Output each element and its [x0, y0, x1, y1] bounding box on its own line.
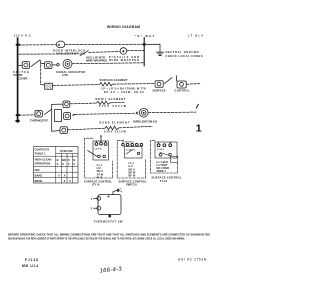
svg-text:4: 4 — [120, 189, 122, 193]
svg-text:240V 2841W: 240V 2841W — [99, 104, 127, 108]
svg-text:S: S — [68, 158, 70, 162]
svg-text:CHECK LOCAL CODES: CHECK LOCAL CODES — [166, 54, 203, 58]
svg-text:BF W: BF W — [129, 174, 136, 178]
svg-text:CONTROL: CONTROL — [175, 88, 190, 92]
svg-text:WIRE WRAPPED: WIRE WRAPPED — [86, 58, 107, 62]
svg-text:LP + LR 3-4 BA 1764W, W 778: LP + LR 3-4 BA 1764W, W 778 — [102, 86, 147, 90]
wire rail3 right — [72, 62, 144, 65]
svg-text:EP AU + 292W, 98.6V: EP AU + 292W, 98.6V — [104, 90, 144, 94]
junction plus — [136, 112, 138, 114]
wire bake — [68, 128, 104, 130]
svg-text:OVEN SW: OVEN SW — [60, 149, 73, 153]
switch box K2 — [45, 62, 52, 69]
svg-text:COVER: COVER — [18, 77, 28, 81]
svg-text:115 V A.C.: 115 V A.C. — [14, 33, 32, 37]
svg-text:AT W: AT W — [97, 172, 104, 176]
svg-text:X: X — [69, 179, 71, 183]
group3 side box — [170, 156, 177, 162]
svg-text:BF W: BF W — [97, 177, 104, 179]
wire rail2 mid — [89, 51, 120, 54]
svg-text:CONTACTS: CONTACTS — [35, 148, 50, 152]
terminal small circle — [57, 63, 59, 65]
svg-text:THERMOSTAT: THERMOSTAT — [30, 118, 48, 122]
terminal 4 lead — [113, 190, 117, 194]
resistor R1 surface element — [100, 82, 113, 86]
junction dot TB/rail1 — [143, 43, 146, 46]
switch S1 — [80, 51, 88, 56]
svg-text:LT BLU: LT BLU — [188, 33, 203, 37]
switch S3 — [165, 78, 173, 84]
ground GND — [157, 52, 164, 55]
svg-text:SIGNAL INDICATOR: SIGNAL INDICATOR — [56, 70, 85, 74]
wire rail4 elbow — [41, 84, 45, 86]
svg-text:BAKE ELEMENT: BAKE ELEMENT — [100, 121, 130, 125]
wire rail1 left — [19, 44, 56, 46]
wire rail1 right — [65, 43, 144, 45]
svg-text:SURFACE ELEMENT: SURFACE ELEMENT — [100, 78, 128, 82]
svg-text:L1 H S: L1 H S — [157, 149, 164, 151]
wire bake elbow — [52, 130, 60, 133]
svg-text:BR: BR — [62, 158, 66, 162]
svg-text:X: X — [58, 173, 60, 177]
lamp DS1 door interlock — [56, 41, 65, 48]
svg-text:1: 1 — [91, 197, 93, 201]
wire rail1 to ground — [144, 44, 160, 52]
switch box K3 — [155, 81, 163, 88]
wire broil — [70, 102, 96, 105]
svg-text:X: X — [73, 162, 75, 166]
group2 loop — [117, 141, 145, 178]
svg-text:B: B — [57, 158, 59, 162]
svg-text:WIRE 4: WIRE 4 — [157, 169, 167, 173]
terminal 3 — [109, 215, 111, 217]
svg-text:COVER: COVER — [13, 73, 23, 77]
terminal 1 — [97, 197, 101, 201]
svg-text:(TY 4): (TY 4) — [92, 183, 100, 187]
switch S4 — [45, 109, 52, 114]
resistor R3 bake — [105, 126, 119, 130]
svg-text:TABLE 1: TABLE 1 — [35, 152, 46, 156]
svg-text:X: X — [64, 179, 66, 183]
group1 switch arm — [88, 150, 98, 156]
svg-text:DIAGRAM ABOVE. FOR REPLACEMENT: DIAGRAM ABOVE. FOR REPLACEMENT OF PARTS … — [8, 237, 185, 241]
wire elbow right — [176, 76, 178, 81]
svg-text:240V 3215W: 240V 3215W — [104, 130, 127, 134]
wire broil branch vertical — [51, 104, 53, 131]
svg-text:OFF: OFF — [35, 168, 41, 172]
svg-text:X: X — [68, 162, 70, 166]
wire rail4 — [53, 84, 99, 87]
svg-text:NEUTRAL GROUND: NEUTRAL GROUND — [166, 50, 199, 54]
thermostat detail box — [98, 195, 121, 215]
tick dots — [118, 188, 119, 189]
tick end — [196, 104, 198, 108]
node bus-thermostat — [17, 114, 20, 116]
svg-text:X: X — [64, 173, 66, 177]
relay box A1 — [55, 110, 62, 122]
svg-text:OVEN LIGHT SW & B: OVEN LIGHT SW & B — [133, 119, 157, 123]
switch box K8 bake — [60, 127, 68, 134]
svg-text:X: X — [62, 162, 64, 166]
wire rail3 stub — [19, 65, 22, 67]
wire thermostat rail — [19, 114, 35, 116]
switch box K7 — [64, 113, 71, 120]
switch box K5 broil — [63, 101, 70, 107]
svg-text:THERMOSTAT SW: THERMOSTAT SW — [94, 220, 124, 224]
node bus-rail1 — [17, 44, 20, 46]
wire rail3 mid — [52, 64, 56, 66]
group1 loop — [85, 138, 113, 178]
switch S2 — [31, 60, 40, 67]
svg-text:WIRING DIAGRAM: WIRING DIAGRAM — [107, 25, 140, 29]
svg-text:SURFACE CONTROL: SURFACE CONTROL — [152, 176, 182, 180]
switch box K6 thermostat — [35, 110, 42, 117]
wire rail4 mid — [113, 83, 154, 86]
svg-text:TY-14: TY-14 — [160, 179, 168, 183]
svg-text:SURFACE: SURFACE — [153, 88, 166, 92]
connector P1 — [45, 83, 53, 89]
lamp DS2 oven lite — [120, 48, 127, 55]
plus mark — [107, 195, 109, 197]
table horizontals — [34, 154, 78, 178]
right bus TB — [143, 38, 145, 67]
svg-text:BAKE: BAKE — [35, 173, 43, 177]
wire oven light end — [148, 111, 196, 114]
node rail3 branch — [40, 61, 42, 85]
switch box K4 — [177, 81, 186, 88]
svg-text:WIRE WRAPPED: WIRE WRAPPED — [109, 58, 139, 62]
svg-text:BROIL: BROIL — [35, 179, 44, 183]
left bus L1 — [17, 38, 19, 122]
svg-text:X: X — [57, 162, 59, 166]
wire rail4 end — [187, 83, 200, 86]
svg-text:L1 H S N: L1 H S N — [126, 149, 135, 151]
svg-text:FJ136: FJ136 — [25, 258, 38, 262]
svg-text:1: 1 — [196, 123, 202, 135]
wire oven light rail — [75, 113, 135, 114]
svg-text:BROIL ELEMENT: BROIL ELEMENT — [96, 97, 126, 101]
svg-text:L1 H S: L1 H S — [95, 149, 102, 151]
group2 box — [124, 147, 142, 158]
node bus-bottom — [16, 120, 18, 122]
svg-text:M: M — [58, 43, 61, 47]
switch box K1 — [22, 62, 29, 69]
group2 terminals top — [122, 143, 125, 146]
resistor R2 broil — [97, 101, 111, 105]
svg-text:SWITCH: SWITCH — [126, 183, 137, 187]
group3 inner box — [155, 142, 177, 158]
table verticals — [56, 147, 73, 183]
terminal 2 — [97, 206, 101, 210]
group1 terminals — [95, 143, 98, 146]
wire rail2 right — [127, 49, 144, 51]
svg-text:HIGH-CLEAN: HIGH-CLEAN — [35, 158, 52, 162]
wire bake end — [120, 126, 153, 128]
svg-text:LITE: LITE — [62, 73, 68, 77]
contacts table frame — [34, 147, 78, 183]
wire broil end — [111, 101, 125, 103]
group1 inner box — [93, 141, 108, 160]
svg-text:MB U14: MB U14 — [22, 264, 38, 268]
wire broil elbow — [52, 103, 63, 105]
svg-text:AGI HC 2753N: AGI HC 2753N — [178, 258, 207, 262]
wire rail2 left — [19, 53, 79, 55]
svg-text:L1 H2 S N C: L1 H2 S N C — [122, 141, 134, 143]
motor B1 — [63, 59, 72, 68]
arrow mark — [72, 114, 75, 116]
svg-text:2: 2 — [91, 207, 93, 211]
svg-text:N: N — [73, 158, 75, 162]
svg-text:166-4-3: 166-4-3 — [99, 267, 122, 275]
svg-text:OPERATION: OPERATION — [35, 162, 51, 166]
lamp DS3 oven light — [139, 108, 148, 117]
group3 loop — [151, 140, 178, 173]
